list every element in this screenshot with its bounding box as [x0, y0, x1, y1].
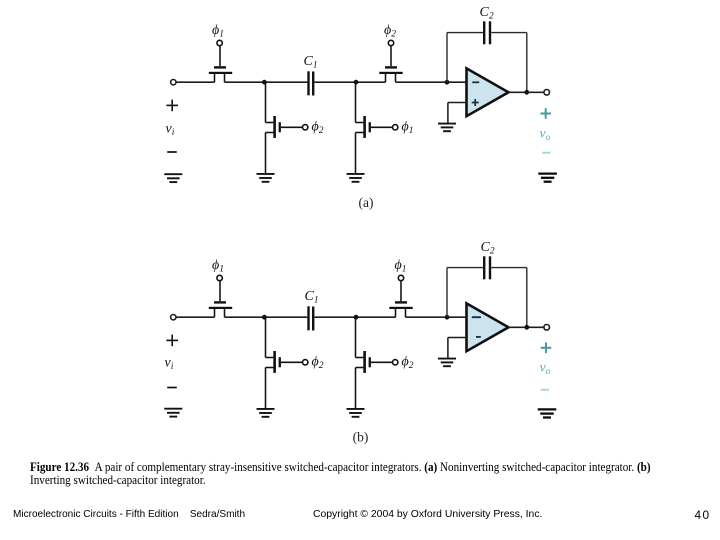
ground at op-amp (b) — [438, 359, 456, 367]
svg-text:ϕ1: ϕ1 — [212, 23, 224, 40]
op-amp U1b minus mark — [472, 316, 481, 318]
ground at op-amp (a) — [438, 124, 456, 132]
plus sign vi (a) — [166, 100, 178, 112]
op-amp U1b — [467, 303, 509, 351]
node A1 — [262, 80, 267, 85]
op-amp U1b + input wire to ground — [448, 337, 467, 339]
minus sign vo (a) — [542, 152, 550, 154]
footer left — [13, 509, 245, 520]
plus sign vi (b) — [166, 335, 178, 347]
svg-text:ϕ2: ϕ2 — [312, 120, 324, 137]
wire S1b to C1b — [225, 316, 308, 318]
output terminal (b) — [544, 325, 550, 331]
transistor S4a (phi2 series switch) — [379, 40, 402, 82]
footer center — [313, 509, 542, 520]
output wire (a) — [509, 91, 544, 93]
wire input to switch S1b — [176, 316, 214, 318]
ground under vo (a) — [538, 174, 557, 182]
transistor S3b (phi2 shunt switch) — [356, 317, 398, 408]
ground under vo (b) — [538, 409, 557, 417]
output wire (b) — [509, 326, 544, 328]
svg-text:ϕ2: ϕ2 — [384, 23, 396, 40]
wire C1b to S4b — [314, 316, 395, 318]
svg-text:C1: C1 — [305, 289, 319, 306]
capacitor C2a — [483, 21, 491, 44]
wire C1a to S3a — [314, 81, 385, 83]
minus sign vo (b) — [541, 389, 549, 391]
node A3 (feedback tap) — [445, 80, 450, 85]
op-amp U1a — [467, 68, 509, 116]
feedback wire left (b) — [447, 268, 483, 318]
wire S1a to C1a — [225, 81, 308, 83]
svg-text:vo: vo — [540, 361, 551, 378]
node A2 — [354, 80, 359, 85]
output node (a) — [524, 90, 529, 95]
plus sign vo (b) — [541, 343, 552, 354]
op-amp U1a minus mark — [472, 81, 479, 83]
node B3 (feedback tap) — [445, 315, 450, 320]
input terminal (a) — [171, 80, 176, 85]
svg-text:ϕ2: ϕ2 — [312, 355, 324, 372]
svg-text:ϕ1: ϕ1 — [212, 258, 224, 275]
wire input to switch S1a — [176, 81, 214, 83]
transistor S2b (phi2 shunt switch) — [266, 317, 308, 408]
capacitor C1b — [307, 306, 314, 330]
transistor S2a (phi2 shunt switch) — [266, 82, 308, 173]
minus sign vi (b) — [167, 387, 177, 389]
op-amp U1a + input wire to ground — [448, 102, 467, 104]
op-amp U1a plus mark — [472, 99, 479, 106]
node B1 — [262, 315, 267, 320]
svg-text:C2: C2 — [480, 5, 494, 22]
svg-text:C2: C2 — [481, 240, 495, 257]
ground under vi (a) — [164, 174, 182, 182]
wire S4b to op-amp (b) — [406, 316, 467, 318]
op-amp U1b plus mark (appears as dash) — [476, 336, 481, 338]
transistor S1b (phi1 series switch) — [209, 275, 232, 317]
svg-text:vi: vi — [166, 121, 175, 138]
ground under S2b — [257, 409, 275, 417]
svg-text:vi: vi — [165, 356, 174, 373]
transistor S3a (phi1 shunt switch) — [356, 82, 398, 173]
plus sign vo (a) — [540, 108, 551, 119]
transistor S4b (phi1 series switch) — [389, 275, 412, 317]
wire S4a to op-amp (a) — [396, 81, 467, 83]
transistor S1a (phi1 series switch) — [209, 40, 232, 82]
feedback wire right (a) — [491, 33, 527, 93]
svg-text:(a): (a) — [359, 195, 374, 210]
ground under S3b — [347, 409, 365, 417]
feedback wire right (b) — [491, 268, 527, 328]
ground under S3a — [347, 174, 365, 182]
svg-text:ϕ2: ϕ2 — [402, 355, 414, 372]
node B2 — [354, 315, 359, 320]
output terminal (a) — [544, 90, 550, 96]
minus sign vi (a) — [167, 151, 177, 153]
svg-text:ϕ1: ϕ1 — [395, 258, 407, 275]
ground under vi (b) — [164, 409, 182, 417]
input terminal (b) — [171, 315, 176, 320]
capacitor C2b — [483, 256, 491, 279]
svg-text:C1: C1 — [304, 54, 318, 71]
svg-text:(b): (b) — [353, 430, 369, 445]
feedback wire left (a) — [447, 33, 483, 83]
svg-text:ϕ1: ϕ1 — [402, 120, 414, 137]
ground under S2a — [257, 174, 275, 182]
capacitor C1a — [307, 71, 314, 95]
footer right — [695, 508, 711, 522]
figure caption — [30, 460, 720, 486]
output node (b) — [524, 325, 529, 330]
svg-text:vo: vo — [540, 126, 551, 143]
